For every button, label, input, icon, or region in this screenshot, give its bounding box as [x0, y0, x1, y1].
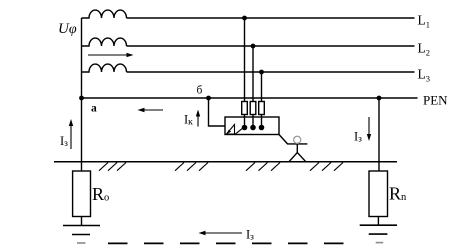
arrow phase current right [88, 53, 134, 57]
wire L1 [127, 17, 415, 19]
node b [206, 96, 211, 101]
wire drop L3 to fuse [261, 72, 263, 102]
ground symbol Rn [360, 225, 397, 242]
ground symbol R0 [63, 226, 100, 244]
terminal dot 2 [250, 125, 256, 131]
winding phase C [82, 64, 127, 72]
resistor Rn [369, 171, 388, 217]
node a [79, 96, 84, 101]
resistor R0 [73, 171, 91, 217]
arrow I3 right down [367, 117, 371, 141]
fuse F2 [250, 102, 256, 115]
wire PEN [82, 97, 418, 99]
person head [294, 136, 301, 143]
person legs [289, 153, 306, 162]
earth hatching group 4 [310, 163, 343, 171]
svg-text:a: a [91, 103, 97, 115]
wire Rn to earth [377, 217, 379, 226]
wire case to person hand [279, 135, 307, 144]
wire left neutral bus [81, 18, 83, 171]
svg-text:Uφ: Uφ [58, 21, 77, 37]
wire R0 to earth [81, 217, 83, 226]
arrow Ik up [196, 110, 200, 127]
wire node b to case [209, 98, 226, 126]
fuse F3 [259, 102, 265, 115]
svg-text:PEN: PEN [423, 93, 448, 108]
ground earth surface line [54, 161, 397, 163]
wire fuse F2 to terminal [252, 115, 254, 128]
insulation breakdown symbol [227, 125, 243, 135]
wire L2 [127, 45, 415, 47]
arrow PEN current left [138, 108, 164, 112]
terminal dot 3 [259, 125, 265, 131]
earth hatching group 1 [99, 163, 126, 171]
arrow I3 bottom left [199, 231, 243, 235]
winding phase B [82, 38, 127, 46]
person body [296, 144, 298, 154]
wire drop L1 to fuse [244, 18, 246, 102]
wire L3 [127, 71, 415, 73]
winding phase A [82, 10, 127, 18]
appliance case box [225, 117, 279, 135]
wire fuse F3 to terminal [261, 115, 263, 128]
wire drop L2 to fuse [252, 46, 254, 102]
svg-text:б: б [197, 85, 203, 97]
wire PEN drop to Rn [378, 98, 380, 171]
wire earth dashed current path [108, 242, 344, 244]
fuse F1 [242, 102, 248, 115]
node junction L1 [242, 16, 247, 21]
terminal dot 1 [242, 125, 248, 131]
wire fuse F1 to terminal [244, 115, 246, 128]
node PEN-Rn junction [377, 96, 382, 101]
earth hatching group 2 [175, 163, 208, 171]
node junction L2 [251, 44, 256, 49]
earth hatching group 3 [246, 163, 280, 171]
node junction L3 [259, 70, 264, 75]
arrow I3 left up [69, 119, 73, 149]
